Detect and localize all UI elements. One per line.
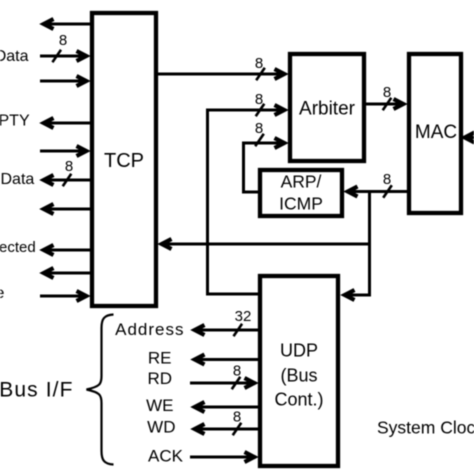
svg-text:ICMP: ICMP bbox=[279, 194, 323, 214]
svg-text:8: 8 bbox=[383, 171, 391, 188]
svg-text:32: 32 bbox=[235, 308, 252, 325]
svg-text:Cont.): Cont.) bbox=[274, 390, 323, 410]
svg-text:8: 8 bbox=[255, 120, 263, 137]
svg-text:(Bus: (Bus bbox=[280, 366, 317, 386]
svg-text:Arbiter: Arbiter bbox=[299, 99, 356, 120]
svg-text:8: 8 bbox=[255, 91, 263, 108]
svg-text:WE: WE bbox=[146, 396, 173, 415]
svg-text:MAC: MAC bbox=[415, 122, 457, 143]
svg-text:RE: RE bbox=[148, 349, 172, 368]
svg-text:Address: Address bbox=[115, 320, 184, 339]
svg-text:8: 8 bbox=[383, 84, 391, 101]
svg-text:Data: Data bbox=[1, 171, 35, 188]
svg-text:TCP: TCP bbox=[104, 150, 144, 172]
svg-text:8: 8 bbox=[233, 409, 241, 426]
svg-text:8: 8 bbox=[59, 32, 67, 49]
svg-text:WD: WD bbox=[147, 418, 175, 437]
svg-text:ected: ected bbox=[0, 239, 36, 256]
svg-text:8: 8 bbox=[65, 158, 73, 175]
svg-text:System Clock: System Clock bbox=[377, 418, 474, 438]
svg-text:ARP/: ARP/ bbox=[281, 172, 322, 192]
svg-text:UDP: UDP bbox=[280, 341, 318, 361]
svg-text:8: 8 bbox=[233, 363, 241, 380]
svg-text:8: 8 bbox=[255, 55, 263, 72]
svg-text:Bus I/F: Bus I/F bbox=[0, 379, 74, 402]
svg-text:e: e bbox=[0, 285, 5, 302]
svg-text:Data: Data bbox=[0, 48, 29, 65]
svg-text:PTY: PTY bbox=[0, 113, 30, 130]
svg-text:ACK: ACK bbox=[148, 447, 184, 466]
svg-text:RD: RD bbox=[147, 369, 172, 388]
